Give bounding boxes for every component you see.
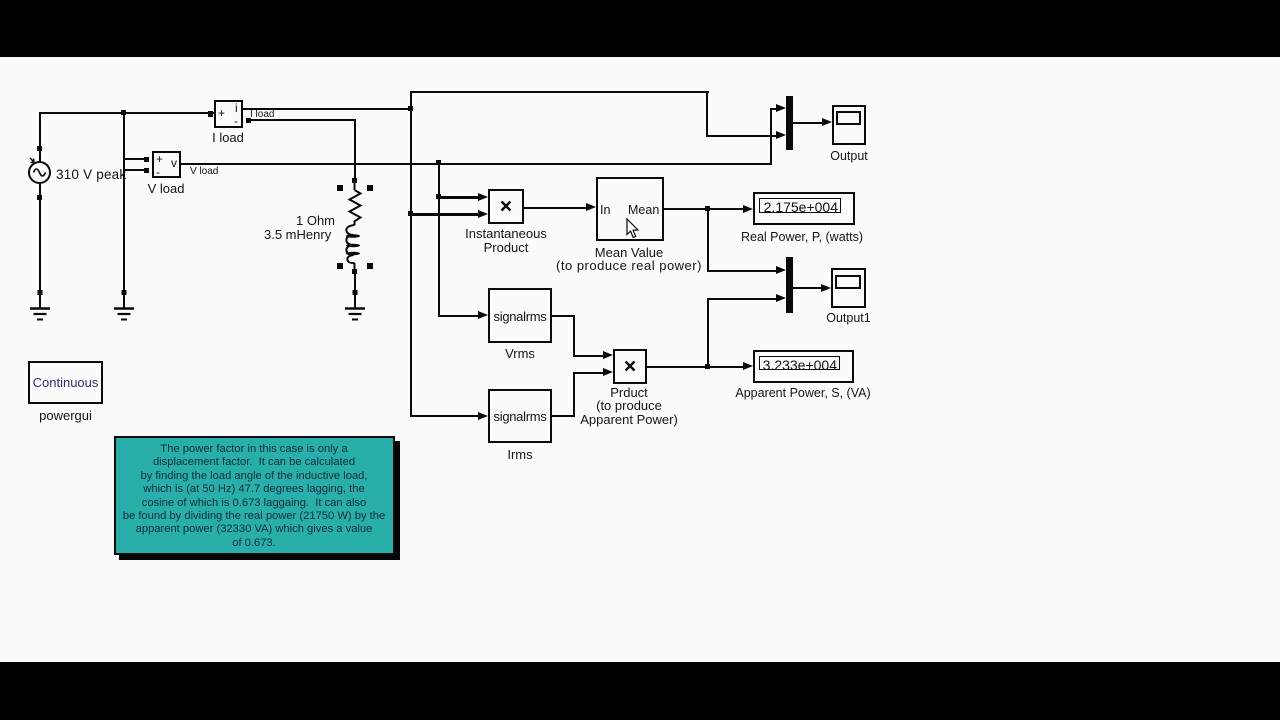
powergui block bbox=[28, 361, 103, 404]
junction V signal bbox=[436, 160, 441, 165]
arrow mux1 in1 bbox=[776, 104, 786, 112]
selection handles of branch bbox=[337, 185, 343, 191]
arrow display1 in bbox=[743, 205, 753, 213]
wire Irms corner up bbox=[573, 372, 575, 417]
arrow scope2 in bbox=[821, 284, 831, 292]
junction node top bbox=[121, 110, 126, 115]
label Prduct bbox=[610, 385, 648, 400]
arrow Irms in bbox=[478, 412, 488, 420]
label V load block bbox=[148, 181, 185, 196]
port source + bbox=[37, 146, 42, 151]
mux Mux1 bbox=[786, 96, 793, 150]
wire Mean out to display1 bbox=[664, 208, 744, 210]
wire source plus up bbox=[39, 112, 41, 148]
arrow mux2 in2 bbox=[776, 294, 786, 302]
wire real power down bbox=[707, 208, 709, 272]
port I load + bbox=[208, 111, 214, 117]
arrow product2 in1 bbox=[603, 351, 613, 359]
product block Prduct bbox=[613, 349, 647, 384]
arrow Mean in bbox=[586, 203, 596, 211]
junction product in2 tap bbox=[408, 211, 413, 216]
label Instantaneous Product bbox=[465, 226, 547, 241]
junction real power bbox=[705, 206, 710, 211]
wire to product1 in1 bbox=[438, 196, 480, 199]
label Vrms bbox=[505, 346, 535, 361]
annotation text bbox=[114, 443, 394, 550]
label I load block bbox=[212, 130, 244, 145]
series RLC branch 1 Ohm 3.5 mHenry bbox=[330, 176, 380, 298]
current measurement I load bbox=[214, 100, 243, 128]
display Apparent Power bbox=[753, 350, 854, 384]
label Mean Value bbox=[595, 245, 663, 260]
signal name V load bbox=[190, 166, 218, 177]
label 310 V peak bbox=[56, 167, 126, 182]
junction apparent power bbox=[705, 364, 710, 369]
label Real Power, P, (watts) bbox=[741, 230, 863, 244]
arrow display2 in bbox=[743, 362, 753, 370]
port V load - bbox=[144, 168, 149, 173]
wire into mux1 input2 bbox=[706, 135, 778, 137]
arrow Vrms in bbox=[478, 311, 488, 319]
wire into mux2 in2 bbox=[707, 298, 779, 300]
Mean Value block bbox=[596, 177, 664, 241]
annotation note shadow bbox=[119, 441, 400, 560]
wire V corner up x=770.5 bbox=[770, 108, 772, 165]
mux Mux2 bbox=[786, 257, 793, 313]
wire Vrms out bbox=[552, 315, 575, 317]
label Irms bbox=[507, 447, 532, 462]
wire to V load - bbox=[123, 169, 145, 171]
wire to product1 in2 bbox=[410, 213, 480, 216]
junction I signal bbox=[408, 106, 413, 111]
wire I signal vertical bus x=410 bbox=[410, 91, 412, 417]
wire I load minus to branch bbox=[248, 119, 356, 121]
AC voltage source 310 V peak bbox=[20, 140, 64, 190]
arrow product1 in1 bbox=[478, 193, 488, 201]
label 1 Ohm bbox=[296, 213, 335, 228]
port V load + bbox=[144, 157, 149, 162]
voltage measurement V load bbox=[152, 151, 181, 178]
wire V vertical bus x=438.5 bbox=[438, 163, 440, 317]
ground G3 bbox=[343, 290, 367, 324]
wire ground-return vertical x=123 bbox=[123, 112, 125, 293]
wire top node horizontal bbox=[39, 112, 214, 114]
wire top loop horizontal y=92 bbox=[410, 91, 709, 93]
wire to Vrms in bbox=[438, 315, 480, 317]
label Apparent Power, S, (VA) bbox=[735, 386, 870, 400]
wire source top stem bbox=[39, 150, 41, 162]
wire top loop down x=707 bbox=[706, 91, 708, 136]
wire I load signal to vertical bus bbox=[242, 108, 412, 110]
wire mux2 out bbox=[793, 287, 822, 289]
ground G1 bbox=[28, 290, 52, 324]
wire Irms out bbox=[552, 415, 575, 417]
Irms block bbox=[488, 389, 552, 443]
label 3.5 mHenry bbox=[264, 227, 331, 242]
label Output bbox=[830, 149, 868, 163]
wire apparent power up bbox=[707, 298, 709, 367]
scope Output bbox=[832, 105, 866, 145]
wire V load signal horizontal y=163.5 bbox=[181, 163, 772, 165]
display Real Power bbox=[753, 192, 855, 225]
annotation note box bbox=[114, 436, 395, 555]
mouse cursor bbox=[626, 218, 640, 240]
wire into mux2 in1 bbox=[707, 270, 779, 272]
ground G2 bbox=[112, 290, 136, 324]
wire into mux1 input1 bbox=[770, 108, 779, 110]
wire to Irms in bbox=[410, 415, 480, 417]
arrow product1 in2 bbox=[478, 210, 488, 218]
label powergui bbox=[39, 408, 92, 423]
arrow product2 in2 bbox=[603, 368, 613, 376]
signal name I load bbox=[250, 109, 274, 120]
arrow mux1 in2 bbox=[776, 131, 786, 139]
wire branch bottom bbox=[354, 273, 356, 292]
wire source minus down bbox=[39, 184, 41, 293]
wire mux1 out bbox=[793, 122, 823, 124]
wire product2 out to display2 bbox=[647, 366, 744, 368]
scope Output1 bbox=[831, 268, 866, 308]
arrow scope1 in bbox=[822, 118, 832, 126]
Vrms block bbox=[488, 288, 552, 343]
port I load - bbox=[246, 118, 251, 123]
wire to V load + bbox=[123, 158, 145, 160]
port source - bbox=[37, 195, 42, 200]
arrow mux2 in1 bbox=[776, 266, 786, 274]
wire into product2 in1 bbox=[573, 355, 604, 357]
wire branch top vertical bbox=[354, 119, 356, 180]
junction product in1 tap bbox=[436, 194, 441, 199]
product block Instantaneous Product bbox=[488, 189, 524, 224]
wire Vrms corner down bbox=[573, 315, 575, 357]
wire product1 out to Mean bbox=[524, 207, 588, 209]
label Output1 bbox=[826, 311, 870, 325]
wire into product2 in2 bbox=[573, 372, 604, 374]
